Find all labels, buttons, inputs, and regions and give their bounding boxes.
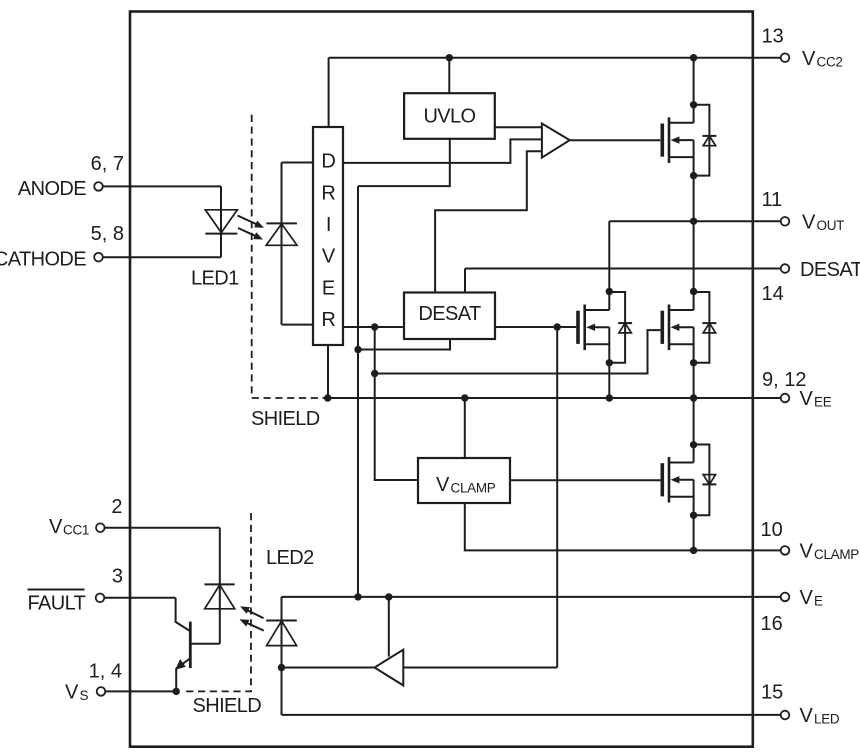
photodiode D1 (detector for LED1) — [266, 163, 297, 325]
svg-text:V: V — [49, 516, 63, 538]
wire DESAT bottom to VE net — [358, 339, 450, 350]
transistor Q1 — [662, 105, 716, 176]
wire DESAT to buffer input 3 — [435, 151, 542, 292]
pin VS 1,4 — [106, 690, 177, 692]
wire DESAT net down to mute buffer — [556, 327, 558, 668]
LED1 light arrows — [238, 216, 258, 237]
DESAT block — [404, 293, 495, 340]
junction Q3 drain — [690, 288, 697, 295]
junction Q2 source/VEE — [606, 394, 613, 401]
pin VCLAMP 10 — [781, 546, 790, 555]
svg-text:13: 13 — [762, 26, 784, 48]
svg-text:S: S — [80, 688, 89, 703]
junction DESAT/Q2 gate node — [554, 323, 561, 330]
svg-text:CC2: CC2 — [817, 55, 843, 70]
svg-text:ANODE: ANODE — [18, 178, 86, 200]
wire gate-drive to Q3 gate — [375, 330, 661, 373]
svg-text:LED1: LED1 — [191, 268, 239, 290]
IC body outline — [130, 12, 753, 747]
svg-text:FAULT: FAULT — [28, 593, 86, 615]
svg-text:1, 4: 1, 4 — [89, 661, 122, 683]
wire buffer to Q1 gate — [570, 139, 661, 141]
transistor Q3 — [662, 292, 716, 363]
junction Q3 source — [690, 359, 697, 366]
pin DESAT 14 — [781, 264, 790, 273]
svg-text:11: 11 — [762, 189, 783, 211]
svg-text:LED2: LED2 — [266, 547, 314, 569]
wire DRIVER bottom to VEE — [327, 345, 329, 398]
svg-text:V: V — [802, 48, 816, 70]
wire VOUT rail — [609, 221, 780, 291]
junction Q1 drain/VCC2 — [690, 54, 697, 61]
wire D1 to DRIVER — [282, 163, 314, 325]
wire Q2 source to VEE — [608, 363, 610, 398]
svg-text:V: V — [802, 212, 816, 234]
svg-text:CATHODE: CATHODE — [0, 249, 86, 271]
pin ANODE 6,7 — [103, 185, 221, 187]
junction Q4 drain — [690, 441, 697, 448]
svg-text:6, 7: 6, 7 — [91, 153, 124, 175]
svg-text:V: V — [800, 541, 814, 563]
svg-text:DESAT: DESAT — [418, 303, 481, 325]
wire VE rail — [282, 596, 781, 598]
transistor Q4 — [662, 445, 716, 516]
junction DESAT bottom/VE net — [354, 346, 361, 353]
svg-text:5, 8: 5, 8 — [91, 223, 124, 245]
wire VCC2 down to DRIVER top — [328, 58, 330, 127]
pin VCC2 13 — [781, 53, 790, 62]
svg-text:10: 10 — [761, 519, 783, 541]
junction Q1 diode bottom — [690, 172, 697, 179]
pin VOUT 11 — [781, 217, 790, 226]
pin FAULT 3 — [105, 597, 176, 599]
svg-text:V: V — [800, 587, 814, 609]
svg-text:UVLO: UVLO — [423, 106, 475, 128]
UVLO block — [404, 93, 495, 139]
junction LED2 anode node — [278, 664, 285, 671]
junction VCLAMP top/VEE — [461, 394, 468, 401]
LED2 — [266, 597, 297, 715]
wire VCLAMP right to Q4 gate — [510, 479, 660, 481]
wire VE to buffer U3 enable — [388, 597, 390, 657]
svg-text:15: 15 — [761, 682, 783, 704]
svg-text:D: D — [321, 151, 335, 173]
svg-text:EE: EE — [814, 395, 832, 410]
junction VE net/VE rail — [354, 593, 361, 600]
junction Q3 gate branch — [371, 370, 378, 377]
svg-text:LED: LED — [814, 712, 840, 727]
svg-text:16: 16 — [761, 613, 783, 635]
junction DESAT gate-drive node — [371, 323, 378, 330]
wire VE net vertical — [357, 186, 359, 597]
wire buffer U3 input — [403, 667, 557, 669]
junction VOUT node — [690, 218, 697, 225]
junction Q4 diode bottom — [690, 512, 697, 519]
transistor Q5 (fault output) — [176, 598, 191, 692]
LED2 light arrows — [246, 610, 264, 631]
svg-text:R: R — [321, 309, 335, 331]
svg-text:CLAMP: CLAMP — [814, 547, 859, 562]
svg-text:OUT: OUT — [817, 218, 845, 233]
wire gate-drive net vertical — [375, 327, 418, 480]
wire UVLO top to VCC2 — [448, 58, 450, 93]
shield 1 (dashed) — [252, 115, 328, 398]
wire Q4 source to VCLAMP out — [693, 515, 695, 550]
shield 2 (dashed) — [184, 513, 252, 691]
wire D2 to base — [190, 643, 220, 645]
pin VLED 15 — [781, 711, 790, 720]
svg-text:V: V — [65, 682, 79, 704]
wire Q3 source to VEE to Q4 drain — [693, 363, 695, 445]
svg-text:SHIELD: SHIELD — [251, 408, 320, 430]
VCLAMP block — [418, 458, 510, 503]
pin VCC1 2 — [105, 527, 220, 529]
photodiode D2 (VCC1 to base) — [204, 528, 234, 644]
svg-text:R: R — [321, 182, 335, 204]
junction UVLO/VCC2 — [446, 54, 453, 61]
wire Q1 drain to VCC2 — [693, 58, 695, 105]
wire VCLAMP bottom to pin 10 — [465, 503, 781, 550]
wire VLED rail — [282, 714, 781, 716]
svg-text:SHIELD: SHIELD — [193, 695, 262, 717]
svg-text:I: I — [326, 214, 331, 236]
LED1 — [205, 186, 237, 257]
junction buffer U3 enable/VE rail — [385, 593, 392, 600]
wire VEE rail — [328, 397, 781, 399]
wire DRIVER to buffer input 2 — [343, 139, 542, 163]
wire DESAT top to DESAT pin — [465, 269, 780, 293]
junction Q2 source — [606, 359, 613, 366]
buffer U3 (LED2 driver) — [282, 667, 375, 669]
pin CATHODE 5,8 — [103, 256, 221, 258]
svg-text:E: E — [814, 594, 823, 609]
wire VCLAMP top to VEE — [464, 398, 466, 458]
pin VE 16 — [781, 593, 790, 602]
svg-text:DESAT: DESAT — [800, 259, 860, 281]
junction Q4 source/VCLAMP out — [690, 547, 697, 554]
junction DRIVER/VEE — [324, 394, 331, 401]
junction Q2 drain — [606, 288, 613, 295]
junction emitter/VS rail — [173, 688, 180, 695]
svg-text:V: V — [800, 388, 814, 410]
wire DRIVER to DESAT left — [343, 326, 404, 328]
svg-text:2: 2 — [111, 496, 122, 518]
svg-text:V: V — [322, 246, 336, 268]
wire Q1 source to VOUT — [693, 176, 695, 222]
wire DESAT right to Q2 gate — [495, 326, 576, 328]
svg-text:V: V — [800, 705, 814, 727]
svg-text:E: E — [322, 277, 335, 299]
wire UVLO bottom to VE net — [358, 139, 450, 186]
junction Q3 source/VEE — [690, 394, 697, 401]
svg-text:CC1: CC1 — [63, 523, 89, 538]
wire Q3 drain to VOUT — [693, 221, 695, 292]
wire VCC2 rail — [329, 57, 781, 59]
transistor Q2 — [578, 292, 632, 363]
svg-text:CLAMP: CLAMP — [451, 481, 496, 496]
junction Q1 diode top — [690, 101, 697, 108]
svg-text:3: 3 — [112, 566, 123, 588]
pin VEE 9,12 — [781, 394, 790, 403]
driver block — [313, 127, 343, 345]
buffer U2 (output driver) — [542, 124, 570, 158]
svg-text:14: 14 — [762, 283, 784, 305]
wire UVLO to buffer input 1 — [495, 126, 542, 128]
svg-text:V: V — [436, 474, 450, 496]
